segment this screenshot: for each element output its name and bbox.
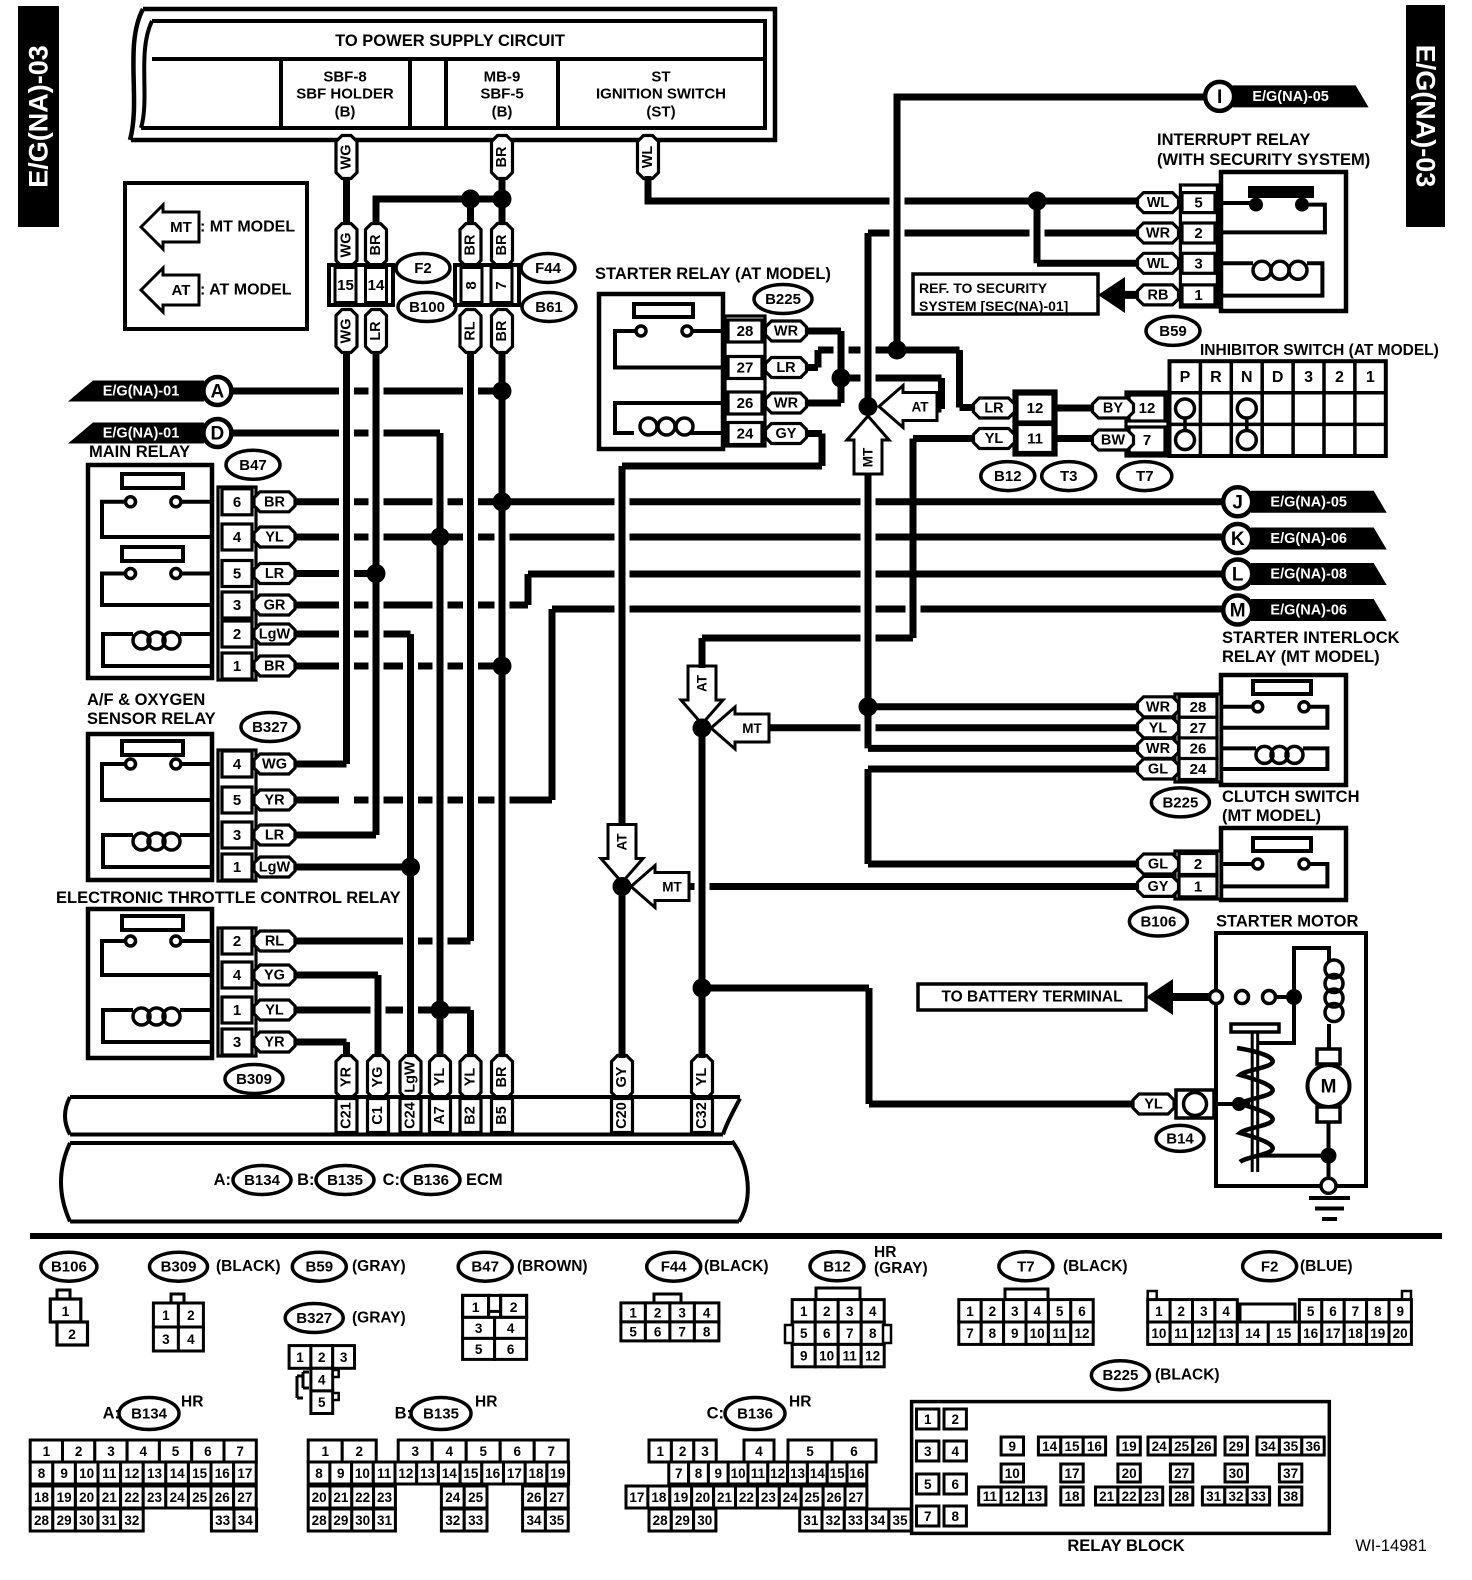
pill YR at ECM C21 — [336, 1056, 357, 1099]
svg-text:RL: RL — [463, 321, 479, 340]
svg-text:4: 4 — [233, 967, 242, 984]
connector B225 tag — [754, 285, 812, 314]
svg-text:WG: WG — [339, 145, 355, 170]
wire YG ETC pin 4 down to ECM C1 — [375, 975, 382, 1058]
pill BR above fuse 7 — [492, 224, 513, 267]
ECM terminal cell A7 — [430, 1099, 451, 1133]
pill WG above fuse 15 — [336, 224, 357, 267]
svg-text:27: 27 — [237, 1490, 252, 1505]
svg-text:E/G(NA)-03: E/G(NA)-03 — [24, 45, 54, 188]
svg-text:4: 4 — [187, 1332, 195, 1347]
svg-text:6: 6 — [513, 1444, 521, 1459]
svg-text:3: 3 — [1304, 369, 1313, 386]
wire 11 to BW — [1056, 435, 1093, 442]
wire LgW down to ECM C24 — [407, 634, 414, 1058]
svg-text:15: 15 — [337, 277, 354, 294]
svg-text:B327: B327 — [296, 1310, 332, 1327]
svg-text:2: 2 — [1178, 1304, 1186, 1319]
ECM terminal cell C20 — [612, 1099, 633, 1133]
svg-text:14: 14 — [810, 1466, 826, 1481]
svg-text:: MT MODEL: : MT MODEL — [200, 219, 295, 236]
svg-text:YL: YL — [265, 530, 284, 546]
svg-text:16: 16 — [215, 1466, 231, 1481]
connector T7 tag bottom — [999, 1252, 1053, 1281]
svg-text:B:: B: — [297, 1171, 314, 1189]
svg-text:4: 4 — [703, 1305, 711, 1320]
svg-text:9: 9 — [1011, 1326, 1019, 1341]
svg-text:17: 17 — [1064, 1466, 1079, 1481]
wire A line to BR junction — [231, 388, 502, 395]
junction BR at fuse 8 — [461, 190, 480, 209]
svg-text:2: 2 — [510, 1299, 518, 1315]
svg-text:AT: AT — [615, 833, 630, 851]
wire GY pin24 jog down — [807, 430, 822, 437]
svg-text:2: 2 — [233, 626, 241, 643]
svg-text:12: 12 — [865, 1349, 880, 1364]
svg-text:8: 8 — [869, 1326, 877, 1341]
svg-text:27: 27 — [549, 1490, 564, 1505]
svg-text:5: 5 — [233, 566, 241, 583]
main relay armature bar — [122, 474, 183, 488]
pill GY starter relay 24 — [766, 424, 807, 444]
page tag E/G(NA)-03 right — [1406, 5, 1445, 227]
starter relay switch contacts — [636, 326, 646, 336]
svg-text:5: 5 — [1056, 1304, 1064, 1319]
svg-text:D: D — [211, 424, 225, 445]
svg-text:RB: RB — [1148, 287, 1169, 303]
pill LR main relay pin 5 — [254, 564, 295, 584]
pill BY inhibitor 12 — [1093, 398, 1134, 418]
svg-text:B47: B47 — [239, 457, 267, 474]
svg-text:1: 1 — [472, 1299, 480, 1315]
connector B100 tag — [398, 293, 456, 322]
wire LR fuse 14 down to A/F relay pin 3 — [373, 352, 380, 835]
svg-text:29: 29 — [1229, 1439, 1244, 1454]
svg-text:12: 12 — [1139, 400, 1156, 417]
wire GL interlock pin24 chain — [865, 769, 872, 864]
wire WG from SBF-8 to fuse 15 — [343, 176, 350, 226]
svg-text:27: 27 — [1174, 1466, 1189, 1481]
pill RL ETC pin 2 — [254, 931, 295, 951]
svg-text:7: 7 — [1352, 1304, 1360, 1319]
svg-text:3: 3 — [678, 1305, 686, 1320]
svg-text:1: 1 — [162, 1308, 170, 1323]
svg-text:7: 7 — [966, 1326, 974, 1341]
connector B106 pinout — [57, 1290, 70, 1300]
pill YG ETC pin 4 — [254, 965, 295, 985]
svg-text:33: 33 — [848, 1513, 864, 1528]
svg-text:22: 22 — [1122, 1489, 1137, 1504]
svg-text:1: 1 — [629, 1305, 637, 1320]
pill GR main relay pin 3 — [254, 595, 295, 615]
svg-text:7: 7 — [236, 1444, 244, 1459]
ECM terminal cell C24 — [400, 1099, 421, 1133]
svg-text:27: 27 — [1190, 720, 1207, 737]
svg-text:5: 5 — [924, 1477, 932, 1492]
svg-text:11: 11 — [983, 1489, 998, 1504]
MT model arrow to clutch GY — [631, 866, 689, 908]
wire YR ETC pin 3 down to ECM C21 — [343, 1042, 350, 1058]
pill RL below fuse 8 — [460, 310, 481, 353]
svg-text:E/G(NA)-06: E/G(NA)-06 — [1270, 531, 1347, 547]
svg-text:BW: BW — [1101, 433, 1125, 449]
svg-text:32: 32 — [124, 1513, 139, 1528]
svg-text:YR: YR — [339, 1066, 355, 1087]
pill BW inhibitor 7 — [1093, 430, 1134, 450]
pill WL below power box — [638, 136, 659, 179]
svg-text:12: 12 — [770, 1466, 785, 1481]
svg-text:SYSTEM [SEC(NA)-01]: SYSTEM [SEC(NA)-01] — [919, 298, 1068, 314]
node L banner E/G(NA)-08 — [1251, 563, 1387, 585]
svg-text:19: 19 — [550, 1466, 565, 1481]
ground terminal — [1321, 1178, 1336, 1193]
pill WR interrupt 2 — [1138, 223, 1179, 243]
pill WG below fuse 15 — [336, 310, 357, 353]
pill LgW main relay pin 2 — [254, 624, 295, 644]
pill BR main relay pin 6 — [254, 492, 295, 512]
svg-text:C:: C: — [383, 1171, 400, 1189]
connector B12 pinout — [816, 1288, 860, 1300]
pill YL at ECM B2 — [460, 1056, 481, 1099]
svg-text:5: 5 — [806, 1444, 814, 1459]
svg-text:4: 4 — [755, 1444, 763, 1459]
svg-text:3: 3 — [924, 1444, 932, 1459]
svg-text:5: 5 — [233, 792, 241, 809]
svg-text:19: 19 — [1370, 1326, 1385, 1341]
svg-text:25: 25 — [805, 1490, 821, 1505]
connector T3 tag — [1042, 462, 1096, 491]
pill YL at ECM A7 — [430, 1056, 451, 1099]
svg-text:31: 31 — [1206, 1489, 1222, 1504]
pill GY at ECM C20 — [612, 1056, 633, 1099]
svg-text:1: 1 — [233, 658, 241, 675]
svg-text:F2: F2 — [414, 260, 432, 277]
svg-text:21: 21 — [102, 1490, 118, 1505]
svg-text:22: 22 — [355, 1490, 370, 1505]
svg-text:1: 1 — [924, 1412, 932, 1427]
svg-text:A/F & OXYGEN: A/F & OXYGEN — [87, 691, 205, 709]
wire BR branch to fuses 14 and 8 — [373, 196, 503, 203]
pill GL clutch 2 — [1138, 854, 1179, 874]
svg-text:BY: BY — [1103, 401, 1123, 417]
wire LR pin27 up to LR-12 line — [807, 364, 818, 371]
connector B135 pinout grid — [308, 1440, 342, 1462]
node J banner E/G(NA)-05 — [1251, 491, 1387, 513]
svg-text:26: 26 — [737, 395, 754, 412]
wire MT tail down to starter interlock — [865, 450, 872, 707]
wire LgW A/F pin1 to LgW vertical — [295, 864, 403, 871]
connector B136 pinout grid — [649, 1440, 671, 1462]
svg-text:15: 15 — [830, 1466, 846, 1481]
plunger spring — [1237, 1048, 1273, 1162]
svg-text:E/G(NA)-01: E/G(NA)-01 — [103, 426, 180, 442]
svg-text:19: 19 — [57, 1490, 72, 1505]
svg-text:31: 31 — [102, 1513, 118, 1528]
svg-text:B14: B14 — [1166, 1130, 1194, 1147]
svg-text:8: 8 — [38, 1466, 46, 1481]
connector F2 tag — [396, 254, 450, 283]
svg-text:32: 32 — [445, 1513, 460, 1528]
svg-text:B134: B134 — [131, 1406, 168, 1423]
svg-text:18: 18 — [34, 1490, 50, 1505]
svg-text:(GRAY): (GRAY) — [352, 1310, 406, 1327]
svg-text:LgW: LgW — [259, 860, 291, 876]
svg-text:2: 2 — [1194, 225, 1202, 242]
pill BR above fuse 8 — [460, 224, 481, 267]
svg-text:2: 2 — [187, 1308, 195, 1323]
svg-text:WL: WL — [640, 146, 656, 169]
svg-text:5: 5 — [1307, 1304, 1315, 1319]
svg-text:2: 2 — [679, 1444, 687, 1459]
svg-text:BR: BR — [264, 494, 285, 510]
svg-text:3: 3 — [107, 1444, 115, 1459]
svg-text:B2: B2 — [463, 1106, 479, 1125]
svg-text:N: N — [1241, 369, 1253, 386]
svg-text:10: 10 — [1030, 1326, 1045, 1341]
separator line — [30, 1233, 1442, 1239]
pill YL ETC pin 1 — [254, 1000, 295, 1020]
connector B327 tag — [241, 713, 299, 742]
wire WL from ignition switch ST — [645, 176, 652, 201]
svg-text:5: 5 — [629, 1324, 637, 1339]
AT model arrow on C32 wire — [681, 666, 723, 724]
pill BR main relay pin 1 — [254, 656, 295, 676]
svg-text:25: 25 — [192, 1490, 208, 1505]
svg-text:28: 28 — [1174, 1489, 1190, 1504]
pill LR A/F pin 3 — [254, 825, 295, 845]
AT model arrow on GY wire — [601, 825, 643, 883]
svg-text:B5: B5 — [494, 1106, 510, 1125]
svg-text:35: 35 — [549, 1513, 565, 1528]
connector B14 tag — [1156, 1125, 1204, 1151]
wire pinion to motor — [1258, 1154, 1329, 1158]
svg-text:24: 24 — [783, 1490, 799, 1505]
svg-text:6: 6 — [823, 1326, 831, 1341]
svg-text:19: 19 — [673, 1490, 688, 1505]
svg-text:5: 5 — [1194, 195, 1202, 212]
svg-text:9: 9 — [715, 1466, 723, 1481]
interlock pin block — [1175, 694, 1221, 782]
starter relay armature bar — [634, 304, 693, 317]
svg-text:5: 5 — [479, 1444, 487, 1459]
svg-text:AT: AT — [172, 282, 191, 299]
svg-text:34: 34 — [238, 1513, 254, 1528]
solenoid plunger link — [1259, 997, 1294, 1043]
pill LgW at ECM C24 — [400, 1056, 421, 1099]
wire WL to banner I — [897, 97, 1205, 350]
svg-text:24: 24 — [445, 1490, 461, 1505]
svg-text:26: 26 — [1196, 1439, 1212, 1454]
pill BR above fuse 14 — [366, 224, 387, 267]
relay block cells 1-8 — [917, 1409, 939, 1429]
svg-text:12: 12 — [1005, 1489, 1020, 1504]
svg-text:10: 10 — [79, 1466, 94, 1481]
pill YL starter motor B14 — [1133, 1094, 1174, 1114]
svg-text:17: 17 — [629, 1490, 644, 1505]
plunger rod — [1251, 1032, 1254, 1172]
svg-text:2: 2 — [68, 1326, 76, 1342]
svg-text:(MT MODEL): (MT MODEL) — [1222, 807, 1321, 825]
node I banner E/G(NA)-05 — [1233, 85, 1369, 107]
svg-text:27: 27 — [737, 360, 754, 377]
connector B309 pinout — [171, 1294, 184, 1304]
svg-text:CLUTCH SWITCH: CLUTCH SWITCH — [1222, 788, 1359, 806]
svg-text:1: 1 — [1194, 878, 1202, 895]
svg-text:24: 24 — [1190, 761, 1207, 778]
svg-text:20: 20 — [79, 1490, 94, 1505]
svg-text:3: 3 — [340, 1350, 348, 1365]
svg-text:7: 7 — [846, 1326, 854, 1341]
svg-text:3: 3 — [233, 597, 241, 614]
svg-text:P: P — [1180, 369, 1191, 386]
svg-text:25: 25 — [468, 1490, 484, 1505]
svg-text:11: 11 — [377, 1466, 392, 1481]
svg-text:13: 13 — [1219, 1326, 1235, 1341]
pill WG A/F pin 4 — [254, 754, 295, 774]
svg-text:3: 3 — [411, 1444, 419, 1459]
junction YL ETC pin1 — [431, 1001, 450, 1020]
connector B309 tag — [225, 1065, 283, 1094]
pill RB interrupt 1 — [1138, 285, 1179, 305]
svg-text:1: 1 — [800, 1304, 808, 1319]
svg-text:10: 10 — [355, 1466, 370, 1481]
svg-text:4: 4 — [1222, 1304, 1230, 1319]
svg-text:(B): (B) — [335, 104, 356, 121]
svg-text:5: 5 — [172, 1444, 180, 1459]
svg-text:YR: YR — [264, 793, 285, 809]
svg-text:1: 1 — [1194, 287, 1202, 304]
svg-text:1: 1 — [656, 1444, 664, 1459]
svg-text:B309: B309 — [236, 1071, 272, 1088]
svg-text:27: 27 — [848, 1490, 863, 1505]
wire YG ETC pin4 to C1 vertical — [295, 972, 378, 979]
wire LR line to inhibitor LR-12 — [818, 347, 960, 354]
wire M bus to banner M — [552, 606, 1224, 613]
node D banner E/G(NA)-01 — [68, 423, 204, 444]
wire WR-2 from interrupt relay down — [865, 233, 872, 407]
wire YL junction down to ECM C32 — [699, 728, 706, 1058]
svg-text:11: 11 — [751, 1466, 766, 1481]
junction WR starter relay — [832, 369, 851, 388]
arrow to security system — [1098, 277, 1125, 313]
wire YL ETC pin1 to B2 vertical — [295, 1007, 471, 1014]
svg-text:31: 31 — [377, 1513, 393, 1528]
junction BR on J bus — [493, 492, 512, 511]
svg-text:HR: HR — [874, 1244, 896, 1261]
svg-text:WR: WR — [1146, 226, 1171, 242]
svg-text:18: 18 — [651, 1490, 667, 1505]
svg-text:B136: B136 — [737, 1406, 773, 1423]
svg-text:WG: WG — [339, 233, 355, 258]
starter motor box — [1216, 933, 1366, 1186]
svg-text:8: 8 — [951, 1509, 959, 1524]
svg-text:HR: HR — [181, 1394, 203, 1411]
svg-text:8: 8 — [463, 281, 480, 289]
svg-text:SBF-8: SBF-8 — [323, 69, 366, 86]
svg-text:4: 4 — [318, 1373, 326, 1388]
pill YL interlock 27 — [1138, 718, 1179, 738]
svg-text:WR: WR — [1146, 741, 1171, 757]
svg-text:C20: C20 — [614, 1102, 630, 1129]
svg-text:26: 26 — [215, 1490, 231, 1505]
svg-text:TO POWER SUPPLY CIRCUIT: TO POWER SUPPLY CIRCUIT — [335, 32, 565, 50]
svg-text:YG: YG — [370, 1067, 386, 1088]
wire BR fuse 7 down to ECM B5 — [499, 352, 506, 1058]
svg-text:B225: B225 — [1102, 1367, 1138, 1384]
junction YL B14 branch — [693, 979, 712, 998]
svg-text:14: 14 — [368, 277, 385, 294]
svg-text:3: 3 — [233, 1034, 241, 1051]
svg-text:E/G(NA)-06: E/G(NA)-06 — [1270, 603, 1347, 619]
svg-text:2: 2 — [951, 1412, 959, 1427]
svg-text:YL: YL — [1144, 1097, 1163, 1113]
svg-text:(GRAY): (GRAY) — [874, 1260, 928, 1277]
svg-text:B12: B12 — [823, 1258, 851, 1275]
svg-text:E/G(NA)-08: E/G(NA)-08 — [1270, 567, 1347, 583]
wire RL fuse 8 down to ETC relay pin 2 — [467, 352, 474, 941]
svg-text:1: 1 — [321, 1444, 329, 1459]
svg-text:28: 28 — [312, 1513, 328, 1528]
svg-text:ELECTRONIC THROTTLE CONTROL RE: ELECTRONIC THROTTLE CONTROL RELAY — [56, 889, 401, 907]
pill GL interlock 24 — [1138, 759, 1179, 779]
svg-text:(BROWN): (BROWN) — [517, 1258, 588, 1275]
svg-text:7: 7 — [678, 1324, 686, 1339]
connector B106 tag — [1129, 907, 1187, 936]
main relay coil — [180, 632, 212, 636]
svg-text:29: 29 — [57, 1513, 72, 1528]
svg-text:2: 2 — [355, 1444, 363, 1459]
svg-text:B106: B106 — [1140, 914, 1176, 931]
svg-text:GL: GL — [1148, 857, 1168, 873]
ETC relay pin block — [218, 928, 256, 1056]
pill WR starter relay 26 — [766, 393, 807, 413]
svg-text:B225: B225 — [1162, 794, 1198, 811]
svg-text:YL: YL — [432, 1068, 448, 1087]
interrupt relay contact bar — [1248, 186, 1314, 198]
svg-text:17: 17 — [1325, 1326, 1340, 1341]
pill WR starter relay 28 — [766, 321, 807, 341]
svg-text:26: 26 — [827, 1490, 843, 1505]
wire WL-3 branch — [1034, 201, 1041, 263]
wire BR from MB-9 to fuse 7 — [499, 176, 506, 226]
svg-text:J: J — [1232, 492, 1243, 513]
svg-text:LR: LR — [265, 566, 285, 582]
solenoid coil feed — [1294, 948, 1329, 997]
svg-text:29: 29 — [675, 1513, 690, 1528]
junction YL C32 — [693, 719, 712, 738]
svg-text:6: 6 — [507, 1342, 515, 1357]
svg-text:3: 3 — [846, 1304, 854, 1319]
svg-text:36: 36 — [1305, 1439, 1321, 1454]
svg-text:8: 8 — [1374, 1304, 1382, 1319]
svg-text:7: 7 — [924, 1509, 932, 1524]
svg-text:K: K — [1231, 529, 1245, 550]
svg-text:24: 24 — [170, 1490, 186, 1505]
svg-text:20: 20 — [312, 1490, 327, 1505]
svg-text:MT: MT — [742, 721, 762, 736]
svg-text:B47: B47 — [471, 1259, 499, 1276]
svg-text:3: 3 — [1011, 1304, 1019, 1319]
svg-text:11: 11 — [843, 1349, 858, 1364]
motor ground junction — [1321, 1148, 1337, 1164]
svg-text:6: 6 — [850, 1444, 858, 1459]
svg-text:33: 33 — [215, 1513, 231, 1528]
svg-text:25: 25 — [1174, 1439, 1190, 1454]
ETC relay coil — [180, 1008, 212, 1012]
wire L bus to banner L — [528, 571, 1224, 578]
svg-text:REF. TO SECURITY: REF. TO SECURITY — [919, 280, 1048, 296]
svg-text:21: 21 — [333, 1490, 349, 1505]
